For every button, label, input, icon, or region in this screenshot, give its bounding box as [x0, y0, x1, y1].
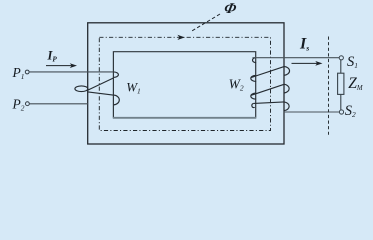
winding W1 crossing wire lower — [88, 92, 113, 95]
winding W2 inner curl 3 — [251, 93, 256, 99]
winding W2 outer arc 1 — [284, 66, 289, 75]
burden wire ZM to S2 — [340, 94, 342, 110]
flux path (dash-dot rectangle) — [99, 37, 270, 130]
secondary boundary dashed line — [328, 37, 330, 135]
wire P1 — [29, 71, 113, 73]
flux direction arrowhead — [177, 35, 184, 40]
core inner rectangle bottom edge — [113, 117, 256, 119]
core outer rectangle — [88, 23, 284, 144]
current arrow IP — [46, 63, 77, 68]
winding W2 inner curl 2 — [251, 75, 256, 81]
terminal circle P1 — [25, 70, 29, 74]
winding W2 outer arc 3 — [284, 102, 289, 111]
winding W2 crossing wire 3 — [254, 102, 284, 104]
winding W2 crossing wire 2 — [251, 84, 285, 95]
winding W1 — [75, 72, 119, 105]
core inner rectangle (window) — [113, 52, 255, 118]
winding W2 end hook — [252, 103, 255, 107]
current arrow Is — [292, 61, 323, 66]
burden ZM box — [338, 73, 344, 94]
leader line from Phi — [191, 14, 221, 32]
terminal circle S1 — [339, 56, 343, 60]
winding W1 turn arc top — [113, 72, 118, 78]
winding W2 — [251, 58, 290, 111]
winding W2 outer arc 2 — [284, 84, 289, 93]
winding W2 crossing wire 1 — [251, 67, 285, 78]
terminal circle P2 — [26, 102, 30, 106]
wire S2 — [284, 111, 340, 113]
winding W1 crossing wire — [87, 78, 114, 91]
burden wire S1 to ZM — [340, 60, 342, 73]
winding W2 inner curl 1 — [253, 58, 257, 63]
wire P2 — [29, 103, 88, 105]
winding W1 end loop — [75, 86, 88, 92]
winding W1 turn arc bottom — [113, 95, 119, 105]
terminal circle S2 — [339, 110, 343, 114]
wire S1 — [253, 57, 340, 59]
